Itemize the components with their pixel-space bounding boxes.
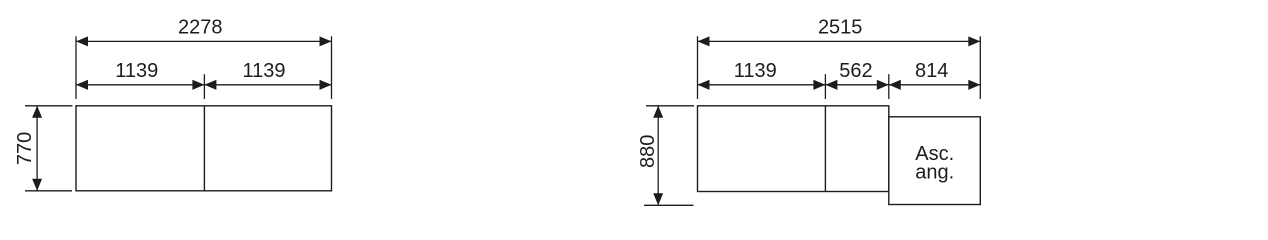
- extension line right-unit left edge: [697, 36, 699, 99]
- svg-text:562: 562: [839, 60, 872, 82]
- ascending angle box: [889, 117, 981, 205]
- dimension 1139 right: [204, 60, 331, 90]
- dimension 2278: [76, 16, 332, 46]
- extension line left-unit right edge: [331, 36, 333, 99]
- left unit outline: [76, 106, 332, 191]
- dimension 814: [889, 60, 981, 90]
- dimension 1139 right-unit: [698, 60, 826, 90]
- right unit divider: [824, 106, 826, 192]
- dimension 880: [637, 106, 694, 206]
- left unit divider: [203, 106, 205, 191]
- svg-text:1139: 1139: [115, 60, 158, 82]
- svg-text:814: 814: [915, 60, 948, 82]
- svg-text:ang.: ang.: [915, 162, 954, 184]
- svg-text:2278: 2278: [178, 16, 223, 38]
- svg-text:2515: 2515: [818, 16, 863, 38]
- extension line right-unit right edge: [979, 36, 981, 99]
- extension line left-unit centre: [203, 74, 205, 99]
- dimension 2515: [698, 16, 981, 46]
- dimension 562: [825, 60, 888, 90]
- right unit outline: [698, 106, 889, 192]
- svg-text:1139: 1139: [734, 60, 777, 82]
- dimension 770: [14, 106, 73, 191]
- svg-text:770: 770: [14, 132, 36, 165]
- svg-text:1139: 1139: [242, 60, 285, 82]
- ascending angle label: [915, 143, 954, 183]
- svg-text:880: 880: [637, 135, 659, 168]
- extension line right-unit second divider: [888, 74, 890, 99]
- extension line left edge: [75, 36, 77, 99]
- extension line right-unit first divider: [824, 74, 826, 99]
- dimension 1139 left: [76, 60, 204, 90]
